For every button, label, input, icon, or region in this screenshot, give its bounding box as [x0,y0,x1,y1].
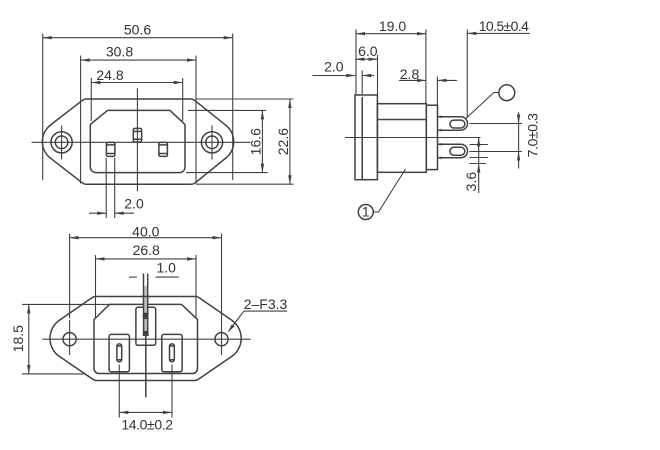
leader circle marker view2 [499,85,515,101]
dimension 3.6 view2 [477,137,480,193]
neutral pin view1 [159,142,168,156]
flange edge over rib view3 [141,296,150,298]
pin top barbs view2 [438,115,441,118]
line slot view3 [109,334,129,371]
svg-text:3.6: 3.6 [463,172,479,192]
flange outline view3 [50,297,241,381]
dimension 24.8 view1 [91,78,182,121]
svg-text:26.8: 26.8 [133,242,160,258]
earth terminal view3 [143,313,149,319]
terminal pin bottom view2 [438,144,468,158]
dimension 30.8 view1 [81,56,196,184]
dimension 19.0 view2 [356,30,426,104]
body inner line upper view2 [377,119,426,121]
earth pin centerline view1 [136,88,138,191]
dimension 6.0 view2 [355,55,377,95]
flange plate view2 [355,95,377,180]
line pin view1 [106,142,115,156]
mounting hole left view3 [63,333,76,346]
dimension 2.0 view1 [89,158,134,218]
dimension 18.5 view3 [22,304,110,374]
svg-text:2.0: 2.0 [124,196,144,212]
svg-text:2.8: 2.8 [400,66,420,82]
dimension 14.0±0.2 view3 [119,365,172,418]
dimension 26.8 view3 [96,255,197,318]
neutral slot view3 [162,334,182,371]
svg-text:16.6: 16.6 [248,128,264,155]
recess outline view1 [90,110,185,172]
centerline horizontal view2 [345,137,481,139]
mounting hole right view3 [215,333,228,346]
dimension 2.8 view2 [399,77,457,106]
line terminal view3 [117,344,122,362]
dimension 40.0 view3 [70,234,222,324]
dimension 50.6 view1 [43,34,233,181]
terminal pin top view2 [438,117,468,130]
mounting hole right view1 [201,132,222,153]
mounting hole left view1 [51,132,72,153]
extension line pin2 bottom view2 [470,157,489,159]
centerline horizontal view1 [32,141,251,143]
extension line pin2 top view2 [470,144,489,146]
svg-text:40.0: 40.0 [132,223,159,239]
dimension 16.6 view1 [186,110,268,172]
balloon leader view2 [373,169,405,212]
svg-text:30.8: 30.8 [106,44,133,60]
leader line to pin view2 [466,93,499,119]
svg-text:22.6: 22.6 [275,128,291,155]
svg-text:2.0: 2.0 [324,59,344,75]
svg-text:7.0±0.3: 7.0±0.3 [525,113,541,157]
svg-text:6.0: 6.0 [358,43,378,59]
rear step view2 [426,105,437,169]
svg-text:19.0: 19.0 [379,18,406,34]
svg-text:14.0±0.2: 14.0±0.2 [121,417,173,433]
center rib lines view3 [144,286,147,313]
label 2-F3.3 view3 [228,311,287,332]
svg-text:24.8: 24.8 [96,67,123,83]
svg-text:1.0: 1.0 [156,259,176,275]
flange inner face line view2 [361,97,363,180]
flange outline view1 [42,99,233,184]
earth slot view3 [136,307,156,345]
dimension 10.5±0.4 view2 [467,30,530,119]
earth pin view1 [133,128,141,142]
extension line lower view2 [470,163,487,165]
pin bottom barbs view2 [438,143,441,146]
neutral terminal view3 [170,344,175,362]
dimension 1.0 view3 [129,276,179,278]
svg-text:1: 1 [362,204,370,220]
svg-text:18.5: 18.5 [10,325,26,352]
balloon 1 view2 [358,205,373,220]
body outline view3 [94,304,198,373]
svg-text:10.5±0.4: 10.5±0.4 [479,18,529,34]
centerline horizontal view3 [42,338,251,340]
dimension 7.0±0.3 view2 [517,112,520,168]
earth terminal tail line view3 [145,336,147,397]
dimension 2.0 view2 [312,71,374,95]
extension line pin1 center view2 [470,123,523,125]
body view2 [377,104,426,173]
extension line pin2 center view2 [470,151,523,153]
svg-text:50.6: 50.6 [124,22,151,38]
dimension 22.6 view1 [196,99,294,184]
svg-text:2–F3.3: 2–F3.3 [244,296,288,312]
